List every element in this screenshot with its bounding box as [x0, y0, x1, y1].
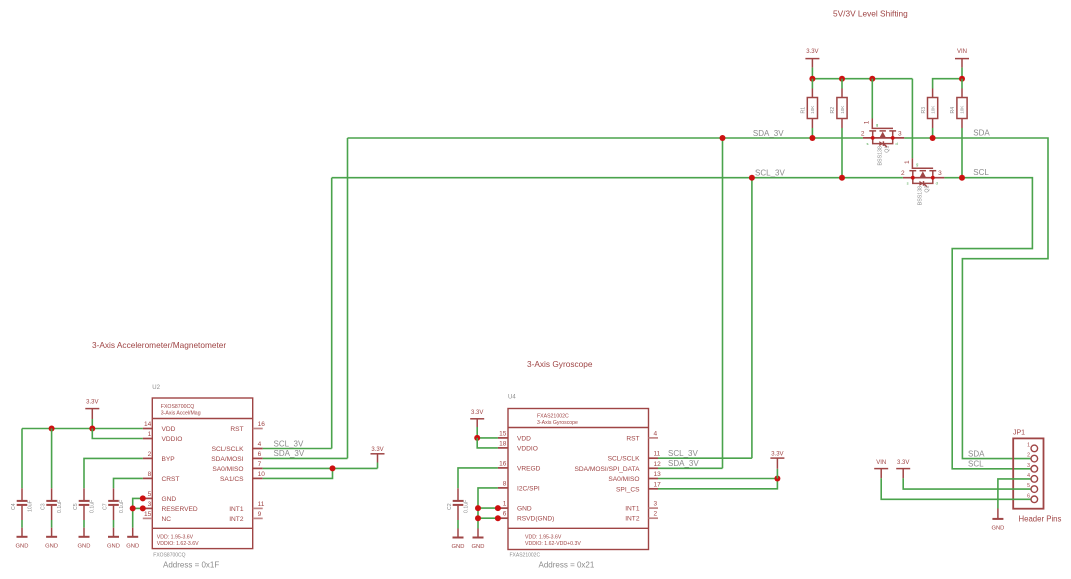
- U4 pin 1 GND: [498, 501, 532, 513]
- svg-text:SDA_3V: SDA_3V: [753, 129, 784, 138]
- wire C4 to gnd: [21, 520, 23, 528]
- connector JP1 header: [1013, 430, 1044, 509]
- wire SCL right + down to header pin 3: [944, 178, 1032, 469]
- capacitor C3: [40, 488, 63, 520]
- ground (C7): [107, 528, 120, 550]
- U2 pin 6 SDA/MOSI: [211, 451, 262, 463]
- svg-text:SDA: SDA: [973, 129, 990, 138]
- wire net SCL_3V vertical to U2 pin 4: [331, 178, 333, 449]
- svg-text:SA0/MISO: SA0/MISO: [212, 466, 243, 473]
- U2 pin 1 VDDIO: [143, 431, 183, 443]
- U2 pin 15 NC (unconnected): [143, 511, 171, 523]
- wire 3.3V drop (U4 right): [776, 469, 778, 479]
- power 3.3V (level shifter): [805, 49, 819, 68]
- wire pin 5 to GND: [133, 498, 143, 527]
- svg-text:Q1: Q1: [884, 146, 890, 153]
- junction R1/SDA_3V: [809, 135, 815, 141]
- svg-text:3.3V: 3.3V: [771, 451, 783, 457]
- svg-text:JP1: JP1: [1013, 430, 1025, 437]
- wire net SDA_3V vertical to U2 pin 6: [347, 138, 349, 458]
- U2 pin 11 INT1 (unconnected): [229, 501, 265, 513]
- junction R4/SCL: [959, 175, 965, 181]
- svg-text:6: 6: [503, 511, 507, 518]
- wire 3.3V stem to rail: [811, 68, 813, 79]
- svg-text:NC: NC: [162, 516, 172, 523]
- svg-text:VDD: 1.95-3.6V: VDD: 1.95-3.6V: [157, 535, 194, 541]
- capacitor C7: [102, 488, 125, 520]
- wire net SCL_3V horizontal: [332, 177, 903, 179]
- svg-text:16: 16: [258, 421, 266, 428]
- svg-text:13: 13: [654, 471, 662, 478]
- svg-text:VIN: VIN: [957, 49, 967, 55]
- ground (C5): [78, 528, 91, 550]
- power 3.3V (header): [896, 460, 910, 478]
- U4 pin 18 VDDIO: [498, 440, 538, 452]
- wire pin1 tie: [478, 507, 498, 509]
- svg-text:BYP: BYP: [162, 456, 176, 463]
- U4 pin 4 RST (unconnected): [626, 430, 658, 442]
- svg-text:3: 3: [938, 170, 942, 177]
- svg-text:7: 7: [258, 461, 262, 468]
- svg-text:R2: R2: [830, 107, 836, 114]
- resistor R1: [801, 79, 818, 138]
- wire 3.3V drop (U2 right): [377, 463, 379, 469]
- svg-text:SDA/MOSI/SPI_DATA: SDA/MOSI/SPI_DATA: [575, 466, 641, 473]
- capacitor C4: [11, 488, 34, 520]
- wire net SDA_3V horizontal: [348, 137, 863, 139]
- svg-text:s: s: [907, 181, 909, 186]
- svg-text:SDA_3V: SDA_3V: [274, 449, 305, 458]
- svg-text:10K: 10K: [960, 105, 965, 114]
- svg-text:0.1uF: 0.1uF: [463, 500, 469, 513]
- svg-text:3.3V: 3.3V: [371, 447, 383, 453]
- svg-text:FXAS21002C: FXAS21002C: [537, 414, 569, 420]
- U4 pin 17 SPI_CS: [616, 481, 661, 493]
- svg-text:Address = 0x1F: Address = 0x1F: [163, 561, 219, 570]
- junction: [89, 426, 95, 432]
- svg-text:GND: GND: [452, 544, 465, 550]
- svg-text:FXOS8700CQ: FXOS8700CQ: [161, 404, 194, 410]
- svg-text:GND: GND: [78, 544, 91, 550]
- svg-text:5: 5: [148, 491, 152, 498]
- svg-text:SA0/MISO: SA0/MISO: [608, 476, 639, 483]
- capacitor C2: [447, 488, 470, 520]
- svg-text:SCL_3V: SCL_3V: [668, 449, 698, 458]
- svg-text:d: d: [896, 141, 898, 146]
- svg-text:3-Axis Accel/Mag: 3-Axis Accel/Mag: [161, 411, 201, 417]
- svg-text:10uF: 10uF: [27, 500, 33, 512]
- junction R3/SDA: [930, 135, 936, 141]
- svg-text:Address = 0x21: Address = 0x21: [539, 561, 595, 570]
- svg-text:18: 18: [499, 440, 507, 447]
- svg-text:INT2: INT2: [229, 516, 244, 523]
- U2 pin 8 CRST: [143, 471, 180, 483]
- junction: [839, 76, 845, 82]
- svg-text:8: 8: [503, 480, 507, 487]
- svg-text:U4: U4: [508, 395, 516, 401]
- svg-text:SDA_3V: SDA_3V: [668, 459, 699, 468]
- svg-text:3-Axis Gyroscope: 3-Axis Gyroscope: [527, 359, 593, 369]
- svg-text:3.3V: 3.3V: [86, 400, 98, 406]
- svg-text:VDDIO: VDDIO: [517, 445, 538, 452]
- svg-text:VIN: VIN: [876, 460, 886, 466]
- svg-text:CRST: CRST: [162, 476, 180, 483]
- op-amp U2 FXOS8700CQ box: [152, 385, 252, 570]
- svg-text:3: 3: [898, 130, 902, 137]
- wire JP1 pin 4 to GND: [998, 479, 1031, 509]
- wire C3 to gnd: [51, 520, 53, 528]
- svg-text:0.1uF: 0.1uF: [119, 500, 125, 513]
- svg-text:3-Axis Accelerometer/Magnetome: 3-Axis Accelerometer/Magnetometer: [92, 340, 226, 350]
- svg-text:SPI_CS: SPI_CS: [616, 486, 640, 493]
- wire U4 pin13 to 3.3V: [658, 478, 777, 480]
- transistor Q2: [901, 79, 944, 206]
- junction pin13/pin17: [774, 476, 780, 482]
- junction: [49, 426, 55, 432]
- svg-text:16: 16: [499, 460, 507, 467]
- JP1 pin 6: [1027, 493, 1037, 502]
- svg-text:3.3V: 3.3V: [897, 460, 909, 466]
- svg-text:SA1/CS: SA1/CS: [220, 476, 244, 483]
- svg-text:GND: GND: [16, 544, 29, 550]
- svg-text:0.1uF: 0.1uF: [89, 500, 95, 513]
- U4 pin 11 SCL/SCLK: [608, 451, 661, 463]
- svg-text:0.1uF: 0.1uF: [57, 500, 63, 513]
- svg-text:2: 2: [654, 511, 658, 518]
- svg-text:10: 10: [258, 471, 266, 478]
- svg-text:GND: GND: [126, 544, 139, 550]
- svg-text:8: 8: [148, 471, 152, 478]
- svg-text:GND: GND: [517, 506, 532, 513]
- svg-text:9: 9: [258, 511, 262, 518]
- svg-text:5V/3V Level Shifting: 5V/3V Level Shifting: [833, 9, 908, 19]
- wire 3.3V to rail: [91, 419, 93, 429]
- svg-text:BSS138: BSS138: [918, 186, 924, 205]
- svg-text:RST: RST: [230, 426, 243, 433]
- ground (C4): [16, 528, 29, 550]
- svg-text:INT1: INT1: [625, 506, 640, 513]
- U4 pin 12 SDA/MOSI/SPI_DATA: [575, 461, 662, 473]
- wire net SCL_3V vertical to U4 pin 11: [751, 178, 753, 459]
- transistor Q1: [861, 79, 904, 166]
- svg-text:10K: 10K: [810, 105, 815, 114]
- wire U4 pin17 jog: [658, 479, 777, 489]
- junction pin5: [140, 495, 146, 501]
- junction gnd rail 1: [475, 505, 481, 511]
- svg-text:2: 2: [1027, 453, 1030, 459]
- U2 pin 16 RST (unconnected): [230, 421, 265, 433]
- svg-text:VDDIO: 1.62-VDD+0.3V: VDDIO: 1.62-VDD+0.3V: [525, 541, 581, 547]
- svg-text:VDD: VDD: [162, 426, 176, 433]
- ground (C2): [452, 529, 465, 551]
- svg-text:2: 2: [901, 170, 905, 177]
- junction pin3: [140, 505, 146, 511]
- U4 pin 8 I2C/SPI: [498, 480, 540, 492]
- junction SDA_3V: [720, 135, 726, 141]
- svg-text:1: 1: [148, 431, 152, 438]
- resistor R2: [830, 79, 847, 178]
- svg-text:s: s: [867, 141, 869, 146]
- power VIN (level shifter): [955, 49, 969, 68]
- resistor R3: [921, 89, 938, 139]
- svg-text:C7: C7: [102, 503, 108, 510]
- wire U2 pin7 to 3.3V: [263, 467, 378, 469]
- svg-text:17: 17: [654, 481, 662, 488]
- svg-text:R4: R4: [950, 107, 956, 114]
- U2 pin 2 BYP: [143, 451, 175, 463]
- U4 pin 15 VDD: [498, 430, 531, 442]
- svg-text:VDD: 1.95-3.6V: VDD: 1.95-3.6V: [525, 535, 562, 541]
- svg-text:FXOS8700CQ: FXOS8700CQ: [153, 553, 185, 559]
- wire U4 pin11 SCL_3V: [658, 457, 752, 459]
- svg-text:BSS138: BSS138: [878, 146, 884, 165]
- junction gnd rail 2: [475, 515, 481, 521]
- svg-text:C4: C4: [11, 503, 17, 510]
- wire pin6 tie: [478, 517, 498, 519]
- svg-text:C5: C5: [73, 503, 79, 510]
- junction pin1: [495, 505, 501, 511]
- JP1 pin 3: [1027, 463, 1037, 472]
- junction gnd tee: [130, 505, 136, 511]
- wire to pin 18: [477, 438, 498, 448]
- wire U2 pin10 jog: [263, 468, 333, 478]
- power 3.3V (U4 right): [770, 451, 784, 469]
- U2 pin 4 SCL/SCLK: [212, 441, 263, 453]
- svg-text:FXAS21002C: FXAS21002C: [510, 553, 541, 559]
- svg-text:SCL: SCL: [968, 460, 984, 469]
- junction pin6: [495, 515, 501, 521]
- wire U4 pin12 SDA_3V: [658, 467, 723, 469]
- wire C5 to gnd: [83, 520, 85, 528]
- U2 pin 3 RESERVED: [143, 501, 198, 513]
- power VIN (header): [874, 460, 888, 478]
- svg-text:d: d: [936, 181, 938, 186]
- op-amp U4 FXAS21002C box: [508, 395, 649, 570]
- svg-text:INT1: INT1: [229, 506, 244, 513]
- svg-text:1: 1: [1027, 442, 1030, 448]
- ground (U2 pins 5/3): [126, 528, 139, 550]
- U4 pin 3 INT1 (unconnected): [625, 501, 658, 513]
- svg-text:2: 2: [148, 451, 152, 458]
- svg-text:4: 4: [258, 441, 262, 448]
- svg-text:2: 2: [861, 130, 865, 137]
- svg-text:3.3V: 3.3V: [806, 49, 818, 55]
- svg-text:10K: 10K: [840, 105, 845, 114]
- svg-text:6: 6: [258, 451, 262, 458]
- svg-text:C3: C3: [40, 503, 46, 510]
- svg-text:11: 11: [258, 501, 265, 508]
- JP1 pin 5: [1027, 483, 1037, 492]
- svg-text:SDA: SDA: [968, 449, 985, 458]
- svg-text:GND: GND: [45, 544, 58, 550]
- svg-text:3.3V: 3.3V: [471, 410, 483, 416]
- resistor R4: [950, 79, 967, 178]
- svg-text:SCL/SCLK: SCL/SCLK: [608, 456, 640, 463]
- junction R2/SCL_3V: [839, 175, 845, 181]
- wire to pin 1 VDDIO: [92, 429, 143, 439]
- U2 pin 9 INT2 (unconnected): [229, 511, 262, 523]
- svg-text:C2: C2: [447, 503, 453, 510]
- svg-text:10K: 10K: [930, 105, 935, 114]
- svg-text:3: 3: [1027, 463, 1030, 469]
- junction SCL_3V: [749, 175, 755, 181]
- ground (C3): [45, 528, 58, 550]
- svg-text:Q2: Q2: [924, 185, 930, 192]
- U2 pin 7 SA0/MISO: [212, 461, 262, 473]
- svg-text:4: 4: [1027, 473, 1030, 479]
- wire VIN rail: [933, 79, 962, 89]
- wire 3.3V rail: [812, 78, 912, 80]
- wire C7 to gnd: [113, 520, 115, 528]
- svg-text:VDD: VDD: [517, 435, 531, 442]
- svg-text:RSVD(GND): RSVD(GND): [517, 516, 554, 523]
- svg-text:GND: GND: [162, 496, 177, 503]
- svg-text:Header Pins: Header Pins: [1019, 515, 1062, 524]
- svg-text:GND: GND: [991, 526, 1004, 532]
- JP1 pin 1: [1027, 442, 1037, 451]
- svg-text:SCL: SCL: [973, 168, 989, 177]
- U2 pin 14 VDD: [143, 421, 176, 433]
- svg-text:6: 6: [1027, 493, 1030, 499]
- wire net SDA_3V vertical to U4 pin 12: [722, 138, 724, 468]
- ground (U4 pins): [472, 529, 485, 551]
- svg-text:SCL_3V: SCL_3V: [755, 169, 785, 178]
- junction: [474, 435, 480, 441]
- svg-text:R1: R1: [801, 107, 807, 114]
- svg-text:SCL_3V: SCL_3V: [274, 439, 304, 448]
- wire VDD rail: [22, 428, 143, 430]
- svg-text:g: g: [916, 162, 918, 167]
- svg-text:1: 1: [864, 120, 871, 124]
- wire pin8 to GND rail: [478, 488, 498, 529]
- wire VIN stem: [961, 68, 963, 79]
- junction pin7/pin10: [330, 465, 336, 471]
- svg-text:3: 3: [654, 501, 658, 508]
- svg-text:VDDIO: VDDIO: [162, 436, 183, 443]
- svg-text:g: g: [876, 122, 878, 127]
- U4 pin 13 SA0/MISO: [608, 471, 661, 483]
- wire pin 3 to GND: [133, 507, 143, 509]
- svg-text:INT2: INT2: [625, 516, 640, 523]
- svg-text:VREGD: VREGD: [517, 465, 541, 472]
- wire pin 8 to C7: [114, 478, 143, 488]
- wire SDA right + down to header pin 2: [904, 138, 1048, 459]
- junction: [809, 76, 815, 82]
- wire pin15: [477, 437, 498, 439]
- wire U2 pin4 SCL_3V: [263, 448, 332, 450]
- svg-text:1: 1: [503, 501, 507, 508]
- U4 pin 2 INT2 (unconnected): [625, 511, 658, 523]
- svg-text:SCL/SCLK: SCL/SCLK: [212, 446, 244, 453]
- wire C2 to gnd: [457, 520, 459, 529]
- svg-text:11: 11: [654, 451, 661, 458]
- wire C4 drop: [21, 429, 23, 489]
- svg-text:3-Axis Gyroscope: 3-Axis Gyroscope: [537, 420, 578, 426]
- wire C3 drop: [51, 429, 53, 489]
- svg-text:VDDIO: 1.62-3.6V: VDDIO: 1.62-3.6V: [157, 541, 199, 547]
- svg-text:I2C/SPI: I2C/SPI: [517, 485, 540, 492]
- svg-text:SDA/MOSI: SDA/MOSI: [211, 456, 243, 463]
- wire U2 pin6 SDA_3V: [263, 457, 348, 459]
- ground (header): [991, 509, 1004, 532]
- svg-text:3: 3: [148, 501, 152, 508]
- svg-text:4: 4: [654, 430, 658, 437]
- power 3.3V (U2 left): [85, 400, 99, 420]
- svg-text:15: 15: [144, 511, 152, 518]
- power 3.3V (U2 right): [371, 447, 385, 463]
- svg-text:1: 1: [904, 160, 911, 164]
- svg-text:RESERVED: RESERVED: [162, 506, 198, 513]
- svg-text:12: 12: [654, 461, 662, 468]
- JP1 pin 2: [1027, 453, 1037, 462]
- U4 pin 16 VREGD: [498, 460, 541, 472]
- wire pin 2 to C5: [84, 458, 143, 488]
- svg-text:RST: RST: [626, 435, 639, 442]
- svg-text:15: 15: [499, 430, 507, 437]
- junction: [869, 76, 875, 82]
- capacitor C5: [73, 488, 96, 520]
- U4 pin 6 RSVD(GND): [498, 511, 554, 523]
- svg-text:5: 5: [1027, 483, 1030, 489]
- JP1 pin 4: [1027, 473, 1037, 482]
- wire 3.3V to JP1 pin 5: [903, 478, 1030, 489]
- svg-text:14: 14: [144, 421, 152, 428]
- U2 pin 10 SA1/CS: [220, 471, 265, 483]
- wire VIN to JP1 pin 6: [881, 478, 1030, 499]
- junction: [959, 76, 965, 82]
- wire 3.3V to pin15: [476, 427, 478, 438]
- power 3.3V (U4 left): [470, 410, 484, 427]
- svg-text:U2: U2: [152, 385, 160, 391]
- svg-text:GND: GND: [472, 544, 485, 550]
- svg-text:R3: R3: [921, 107, 927, 114]
- wire pin16 to C2: [458, 468, 498, 488]
- svg-text:GND: GND: [107, 544, 120, 550]
- U2 pin 5 GND: [143, 491, 177, 503]
